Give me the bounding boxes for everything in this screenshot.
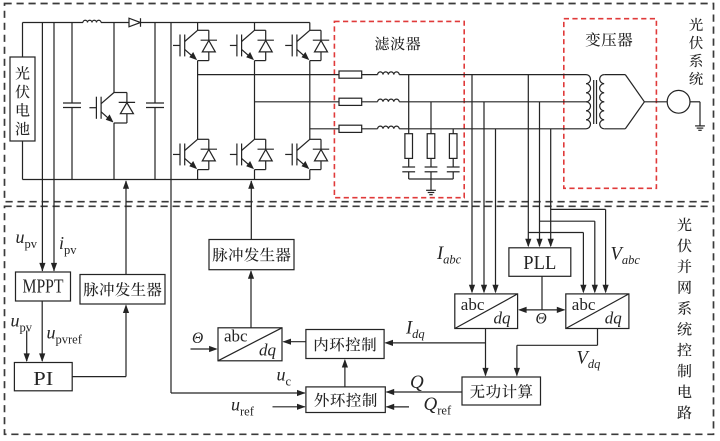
svg-text:Q: Q [410, 372, 424, 393]
wire: u_pv reference input [26, 331, 28, 362]
label 滤波器 [375, 37, 389, 51]
wire: phase C line [310, 128, 339, 130]
svg-text:Θ: Θ [192, 330, 203, 347]
arrow into U9 (Q_ref) [386, 404, 395, 410]
wire: PI to boost pulse generator [72, 376, 126, 378]
resistor RB (filter series) [339, 98, 362, 105]
wire: filter ground stub [430, 179, 432, 190]
arrow into U3 [248, 270, 254, 279]
wire: I_dq line to U8 [386, 342, 486, 344]
wire: inverter gate drive [250, 181, 252, 240]
PV cell box 光伏电池 [10, 57, 35, 141]
arrow into abc/dq U5 (V_c) [603, 285, 609, 294]
svg-text:dq: dq [605, 309, 623, 328]
arrow into abc/dq U4 (I_a) [469, 285, 475, 294]
wire: RB2 to CB [430, 158, 432, 167]
capacitor CB (filter) [425, 166, 438, 168]
arrow into abc/dq U5 (V_a) [580, 285, 586, 294]
wire: theta to U4 [520, 309, 543, 311]
wire: U8 to U7 [284, 341, 306, 343]
wire: I_c tap [495, 129, 497, 292]
transistor Q2 (inverter top IGBT) [255, 29, 266, 31]
wire: Q line [386, 391, 462, 393]
arrow into U4 (theta) [518, 307, 527, 313]
wire: shunt tap A [408, 75, 410, 134]
transformer T1 secondary winding (delta) [600, 75, 605, 102]
inductor LC (filter) [378, 126, 400, 129]
wire: leg 1 collector lead [197, 23, 199, 31]
block U5 abc/dq (voltage) [566, 294, 629, 329]
arrow at bottom rail (inverter drive) [248, 180, 254, 189]
svg-text:PI: PI [33, 368, 53, 390]
resistor RA (filter series) [339, 71, 362, 78]
block U4 abc/dq (current) [455, 294, 518, 329]
wire: filter common bus [409, 178, 454, 180]
arrow into U10 (I_dq) [482, 368, 488, 377]
svg-text:abc: abc [572, 295, 596, 314]
wire: phase B line [255, 101, 340, 103]
wire: RA2 to CA [408, 158, 410, 167]
svg-text:dq: dq [494, 309, 512, 328]
transistor Q5 (inverter bottom IGBT) [255, 138, 266, 140]
svg-text:Θ: Θ [536, 311, 547, 328]
arrow into PLL (V_a) [525, 239, 531, 248]
wire: shunt tap B [430, 102, 432, 134]
wire: leg 2 collector lead [254, 23, 256, 31]
wire: Q_ref stub [386, 406, 409, 408]
wire: theta to U5 [542, 309, 564, 311]
block U10 reactive power calc 无功计算 [462, 377, 541, 405]
svg-text:MPPT: MPPT [23, 276, 64, 298]
wire: PV top lead [22, 23, 24, 58]
wire: phase C to transformer [399, 128, 586, 130]
wire: inverter DC bus / u_c sense [170, 23, 172, 394]
frame: control circuit outer dashed box [5, 206, 714, 434]
ground (filter) [426, 189, 436, 191]
resistor RA2 (filter shunt) [405, 134, 413, 159]
transistor Q6 (inverter bottom IGBT) [310, 138, 321, 140]
wire: CA to common [408, 172, 410, 179]
capacitor CC (filter) [447, 166, 460, 168]
wire: boost gate drive [125, 181, 127, 275]
label 光伏系统 (vertical) [689, 18, 703, 31]
arrow into PI (u_pvref) [39, 353, 45, 362]
wire: CC to common [452, 172, 454, 179]
transformer T1 core [593, 80, 595, 124]
wire: RC2 to CC [452, 158, 454, 167]
transistor Q1 (inverter top IGBT) [198, 29, 209, 31]
wire: PV bottom lead [22, 141, 24, 180]
wire: phase B to transformer [399, 101, 586, 103]
wire: transformer output [644, 101, 667, 103]
arrow into U2 (PI out) [123, 304, 129, 313]
wire: U5 output down [597, 329, 599, 346]
resistor RB2 (filter shunt) [427, 134, 435, 159]
arrow into U5 (theta) [557, 307, 566, 313]
capacitor C2 (DC link) [154, 23, 156, 104]
block U1 MPPT [16, 272, 71, 301]
arrow into MPPT (i_pv) [51, 263, 57, 272]
arrow at bottom rail (boost drive) [123, 180, 129, 189]
arrow into U8 (from U9) [342, 359, 348, 368]
transistor Q3 (inverter top IGBT) [310, 29, 321, 31]
wire: shunt tap C [452, 129, 454, 134]
svg-text:abc: abc [461, 295, 485, 314]
transistor Q7 (boost IGBT) [113, 23, 115, 93]
block U6 PI [14, 363, 72, 391]
wire: leg 2 emitter lead [254, 170, 256, 180]
svg-text:abc: abc [224, 327, 248, 346]
wire: top DC rail (PV to inductor) [23, 22, 84, 24]
wire: i_pv sense tap [53, 23, 55, 272]
arrow into U9 (Q) [386, 389, 395, 395]
diode D1 (boost) [129, 18, 141, 27]
wire: theta input stub [191, 348, 216, 350]
frame: transformer red dashed box [564, 19, 657, 189]
wire: top DC rail (diode to inverter) [141, 22, 310, 24]
arrow into MPPT (u_pv) [39, 263, 45, 272]
wire: V_c tap to PLL [550, 129, 552, 246]
block U7 abc/dq (inverse transform) [218, 328, 282, 361]
arrow into U7 (from U8) [282, 339, 291, 345]
wire: MPPT to PI (u_pvref) [41, 301, 43, 361]
wire: u_pv sense tap [41, 23, 43, 272]
label 变压器 [586, 32, 600, 46]
label 光伏并网系统控制电路 (vertical) [677, 218, 691, 232]
arrow into U8 (I_dq) [384, 340, 393, 346]
inductor L1 (boost) [83, 20, 101, 22]
capacitor C1 (input) [71, 23, 73, 104]
svg-text:dq: dq [259, 341, 277, 360]
wire: top DC rail (inductor to diode) [101, 22, 129, 24]
wire: U4 output down [485, 329, 487, 376]
wire: I_a tap [471, 75, 473, 292]
wire: V_c branch [551, 208, 606, 210]
capacitor CA (filter) [402, 166, 415, 168]
inductor LB (filter) [378, 99, 400, 102]
wire: u_ref stub [273, 406, 305, 408]
svg-text:PLL: PLL [523, 252, 556, 274]
arrow into abc/dq U5 (V_b) [592, 285, 598, 294]
wire: leg 3 emitter lead [309, 170, 311, 180]
block U11 PLL [509, 248, 571, 276]
wire: leg 1 emitter lead [197, 170, 199, 180]
resistor RC (filter series) [339, 125, 362, 132]
wire: RB to LB [362, 101, 378, 103]
ground (grid) [695, 125, 705, 127]
wire: RA to LA [362, 74, 378, 76]
transformer T1 primary winding [586, 75, 591, 102]
wire: I_b tap [483, 102, 485, 292]
arrow into abc/dq U4 (I_c) [492, 285, 498, 294]
wire: U9 to U8 [344, 360, 346, 387]
arrow into PLL (V_c) [548, 239, 554, 248]
arrow into PI (u_pv) [24, 353, 30, 362]
wire: leg 1 midsection [197, 61, 199, 140]
wire: RC to LC [362, 128, 378, 130]
wire: bottom DC rail [23, 179, 310, 181]
arrow into U9 (u_c) [297, 390, 306, 396]
wire: u_c line [171, 392, 305, 394]
block U3 pulse generator 脉冲发生器 (inverter) [209, 240, 294, 270]
wire: leg 3 collector lead [309, 23, 311, 31]
arrow into U10 (V_dq) [514, 368, 520, 377]
wire: V_a tap to PLL [527, 75, 529, 246]
frame: filter red dashed box [334, 21, 464, 197]
wire: phase A to transformer [399, 74, 586, 76]
wire: leg 3 midsection [309, 61, 311, 140]
transistor Q4 (inverter bottom IGBT) [198, 138, 209, 140]
wire: grid to ground [690, 101, 700, 103]
wire: V_b branch [540, 220, 595, 222]
arrow into U7 (theta) [209, 346, 218, 352]
grid source G1 [667, 90, 690, 113]
wire: leg 2 midsection [254, 61, 256, 140]
wire: V_b tap to PLL [539, 102, 541, 246]
wire: phase A line [198, 74, 339, 76]
resistor RC2 (filter shunt) [449, 134, 457, 159]
arrow into PLL (V_b) [536, 239, 542, 248]
wire: V_a branch [528, 232, 583, 234]
arrow into abc/dq U4 (I_b) [481, 285, 487, 294]
wire: U7 to U3 [250, 271, 252, 328]
block U8 inner loop 内环控制 [306, 330, 384, 359]
frame: PV system outer dashed box [5, 4, 714, 202]
wire: CB to common [430, 172, 432, 179]
arrow into U9 (u_ref) [297, 404, 306, 410]
wire: PLL theta output [541, 276, 543, 310]
block U9 outer loop 外环控制 [306, 387, 385, 413]
block U2 pulse generator 脉冲发生器 (boost) [80, 275, 165, 305]
inductor LA (filter) [378, 72, 400, 75]
